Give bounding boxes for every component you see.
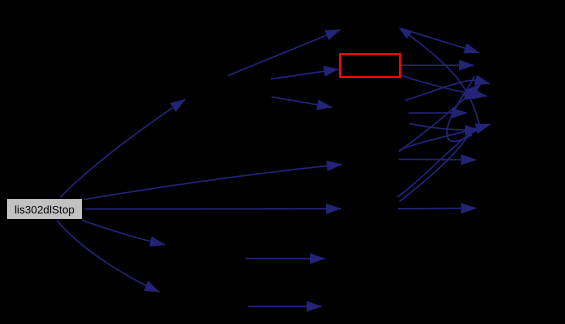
svg-text:lis302dlStop: lis302dlStop [15, 205, 75, 217]
